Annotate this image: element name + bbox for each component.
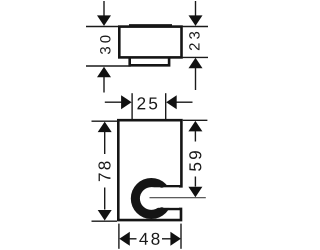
dim 30 top arrow bbox=[103, 1, 105, 16]
dim 23 top arrow bbox=[195, 1, 197, 16]
hook centre line (ext 59 bottom) bbox=[150, 197, 206, 199]
dim 78 lower segment and bottom arrow bbox=[104, 188, 106, 210]
dim 78 bbox=[98, 122, 112, 133]
label 23 bbox=[189, 32, 199, 50]
dim 48 left arrow and segment bbox=[119, 232, 130, 246]
extension 78 bottom bbox=[92, 220, 118, 222]
C ring outer bbox=[131, 178, 172, 219]
extension line B (left bottom, y=66) bbox=[86, 65, 131, 67]
body rect bbox=[119, 27, 181, 58]
label 59 bbox=[189, 151, 201, 171]
main outline bbox=[118, 120, 181, 220]
label 78 bbox=[98, 161, 110, 181]
upper arm tip bbox=[159, 183, 164, 188]
label 25 bbox=[137, 97, 157, 109]
label 48 bbox=[139, 233, 159, 245]
lower arm tip bbox=[159, 207, 164, 212]
slot cut bbox=[151, 187, 179, 208]
dim 30 bottom arrow bbox=[97, 67, 111, 78]
C ring inner hole bbox=[140, 187, 163, 210]
dim 59 bbox=[188, 121, 202, 131]
extension 59 top bbox=[183, 119, 208, 121]
dim 59 lower segment and bottom arrow bbox=[194, 177, 196, 187]
dim 25 left arrow bbox=[105, 101, 122, 103]
extension 78 top bbox=[92, 120, 118, 122]
label 30 bbox=[100, 36, 110, 55]
detail line above top edge bbox=[129, 24, 172, 26]
dim 23 bottom arrow bbox=[189, 58, 203, 68]
dim 48 extension lines bbox=[118, 224, 120, 249]
dim 48 right segment and arrow bbox=[162, 238, 171, 240]
extension line A (top, y=26.5) bbox=[86, 26, 208, 28]
dim 25 right arrow bbox=[166, 95, 177, 109]
lip bbox=[130, 57, 169, 65]
dim 25 extension lines bbox=[131, 93, 133, 119]
extension line C (right bottom, y=57.4) bbox=[182, 56, 209, 58]
